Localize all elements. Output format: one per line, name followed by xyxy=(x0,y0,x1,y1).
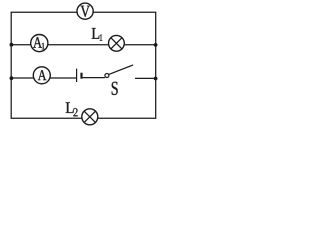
label L2 xyxy=(66,102,78,116)
wire: row2 right segment xyxy=(124,44,156,46)
battery: long plate xyxy=(76,69,78,82)
node: row2 left junction xyxy=(10,43,14,47)
wire: bottom right segment xyxy=(98,117,157,119)
switch S pivot xyxy=(105,74,109,78)
label S xyxy=(112,82,118,95)
node: row3 right junction xyxy=(154,77,158,81)
wire: row2 middle segment xyxy=(48,44,109,46)
wire: row3 left segment xyxy=(11,77,33,79)
lamp L2 xyxy=(82,109,98,125)
wire: bottom left segment xyxy=(11,117,82,119)
wire: top right segment xyxy=(93,11,156,13)
wire: right vertical bus xyxy=(155,12,157,118)
node: row2 right junction xyxy=(154,43,158,47)
battery: short thick plate xyxy=(80,73,82,79)
wire: top left segment xyxy=(11,11,78,13)
switch S lever xyxy=(109,65,133,75)
ammeter A1 xyxy=(31,35,48,52)
wire: row3 ammeter-battery segment xyxy=(50,77,76,79)
wire: row2 left segment xyxy=(11,44,31,46)
wire: row3 right segment xyxy=(135,77,156,79)
label L1 xyxy=(92,28,102,41)
node: row3 left junction xyxy=(10,76,14,80)
lamp L1 xyxy=(109,35,125,51)
wire: row3 battery-switch segment xyxy=(83,77,105,79)
wire: left vertical bus xyxy=(10,12,12,118)
ammeter A xyxy=(33,67,50,84)
voltmeter V xyxy=(77,3,93,19)
